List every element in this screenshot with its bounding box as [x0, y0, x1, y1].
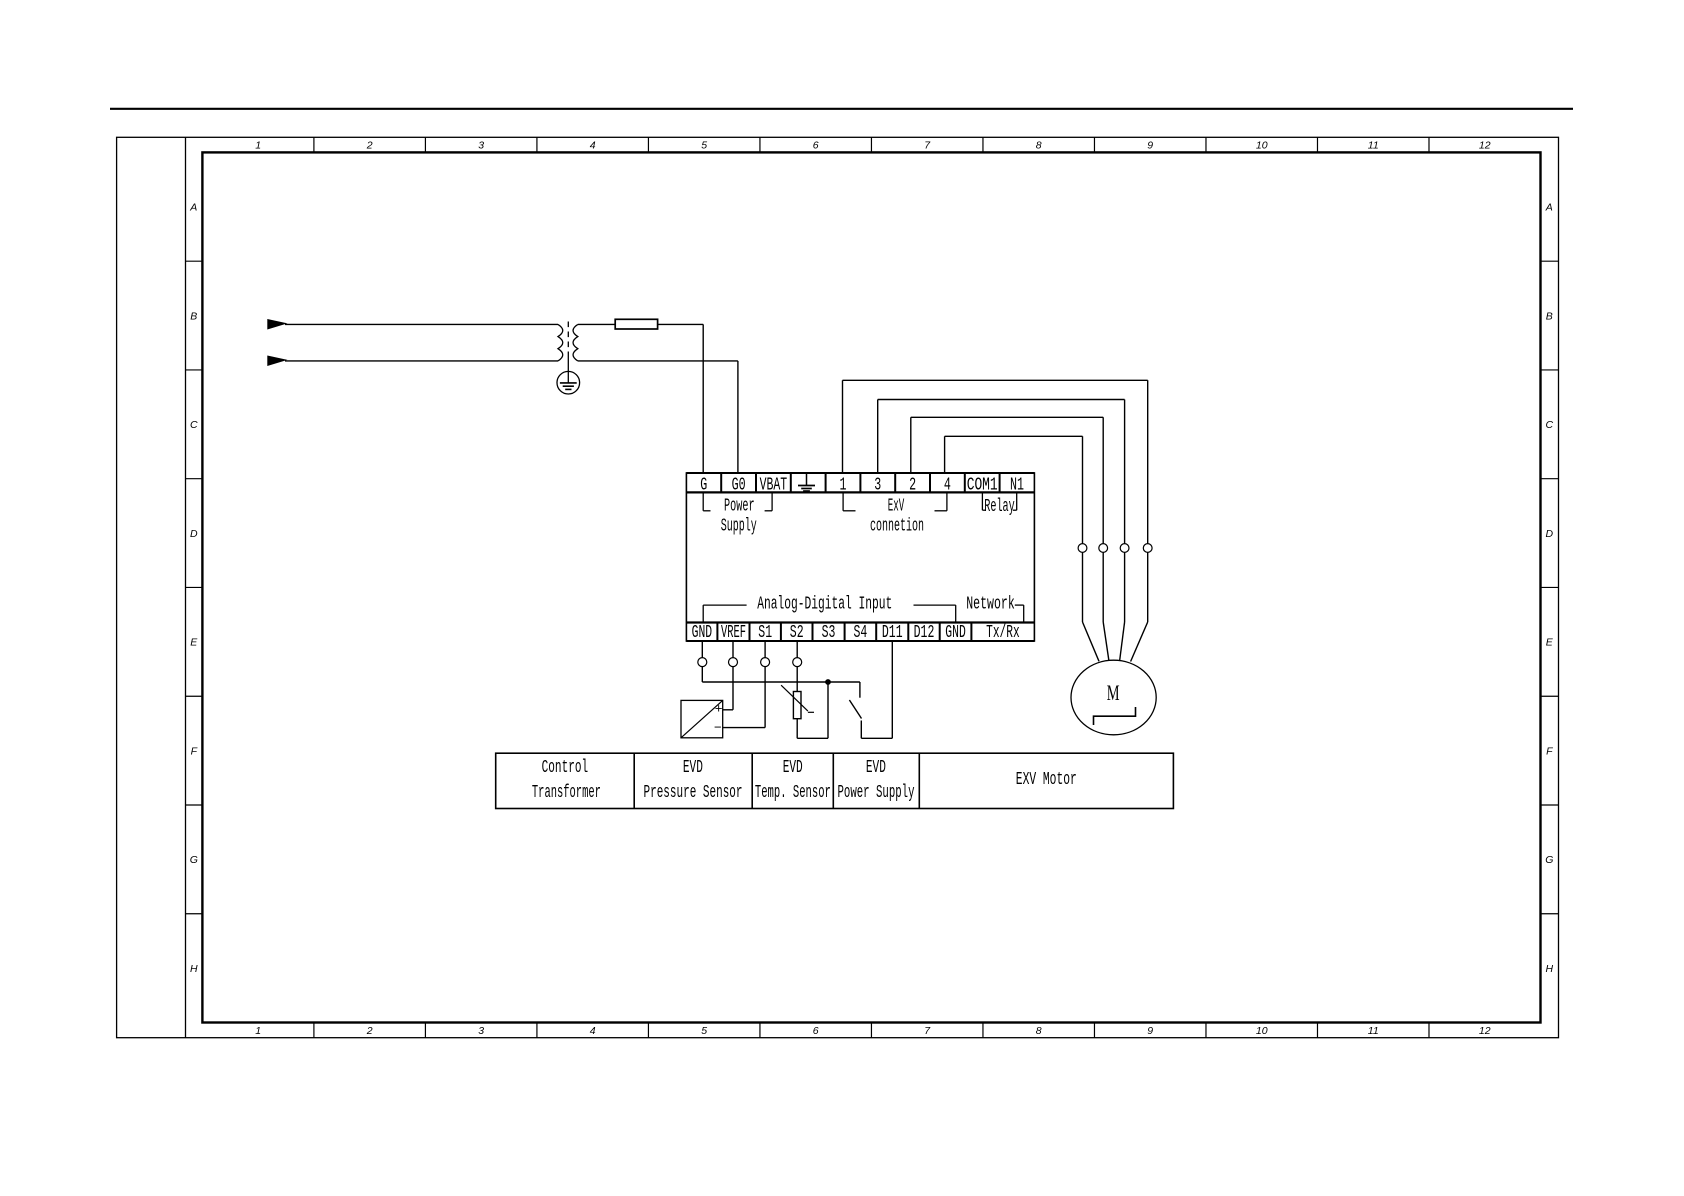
svg-text:D: D — [1546, 528, 1554, 540]
svg-text:Temp. Sensor: Temp. Sensor — [755, 783, 831, 803]
svg-text:B: B — [190, 310, 197, 322]
svg-text:E: E — [1546, 637, 1554, 649]
svg-text:Tx/Rx: Tx/Rx — [986, 623, 1020, 643]
svg-text:Power: Power — [724, 496, 755, 516]
svg-text:3: 3 — [478, 1025, 484, 1037]
svg-text:5: 5 — [701, 1025, 707, 1037]
svg-text:GND: GND — [945, 623, 966, 643]
svg-text:Control: Control — [542, 758, 589, 778]
svg-text:C: C — [1546, 419, 1554, 431]
svg-text:H: H — [190, 963, 198, 975]
svg-text:2: 2 — [909, 475, 916, 495]
svg-text:B: B — [1546, 310, 1553, 322]
svg-text:4: 4 — [590, 1025, 596, 1037]
svg-text:1: 1 — [255, 140, 261, 152]
svg-text:E: E — [190, 637, 198, 649]
svg-text:S4: S4 — [854, 623, 868, 643]
svg-text:2: 2 — [366, 1025, 373, 1037]
svg-text:Relay: Relay — [984, 497, 1015, 517]
svg-text:N1: N1 — [1010, 475, 1024, 495]
svg-text:2: 2 — [366, 140, 373, 152]
svg-text:1: 1 — [255, 1025, 261, 1037]
svg-text:−: − — [714, 721, 722, 736]
svg-text:G0: G0 — [732, 475, 746, 495]
svg-text:9: 9 — [1147, 1025, 1153, 1037]
svg-text:6: 6 — [813, 1025, 819, 1037]
svg-text:+: + — [715, 701, 723, 716]
svg-text:10: 10 — [1256, 140, 1268, 152]
svg-text:S3: S3 — [822, 623, 836, 643]
svg-text:COM1: COM1 — [967, 475, 998, 495]
svg-text:EXV Motor: EXV Motor — [1016, 770, 1077, 790]
svg-text:S1: S1 — [758, 623, 772, 643]
svg-text:Supply: Supply — [721, 516, 757, 536]
svg-text:M: M — [1107, 680, 1120, 705]
svg-text:D: D — [190, 528, 198, 540]
svg-text:Network: Network — [966, 595, 1015, 615]
svg-text:6: 6 — [813, 140, 819, 152]
svg-text:3: 3 — [478, 140, 484, 152]
svg-text:5: 5 — [701, 140, 707, 152]
svg-text:ExV: ExV — [888, 496, 905, 516]
svg-text:3: 3 — [874, 475, 881, 495]
svg-text:D12: D12 — [914, 623, 935, 643]
svg-text:11: 11 — [1368, 140, 1379, 152]
svg-text:12: 12 — [1479, 1025, 1491, 1037]
svg-text:S2: S2 — [790, 623, 804, 643]
svg-text:EVD: EVD — [783, 758, 803, 778]
svg-text:EVD: EVD — [683, 758, 703, 778]
svg-text:G: G — [700, 475, 707, 495]
svg-text:EVD: EVD — [866, 758, 886, 778]
svg-text:11: 11 — [1368, 1025, 1379, 1037]
svg-text:9: 9 — [1147, 140, 1153, 152]
svg-text:4: 4 — [944, 475, 951, 495]
svg-text:VBAT: VBAT — [760, 475, 788, 495]
svg-text:G: G — [190, 854, 198, 866]
svg-text:Analog-Digital Input: Analog-Digital Input — [757, 595, 892, 615]
svg-text:8: 8 — [1036, 1025, 1042, 1037]
svg-text:A: A — [1545, 202, 1553, 214]
svg-text:Pressure Sensor: Pressure Sensor — [644, 783, 743, 803]
svg-text:A: A — [189, 202, 197, 214]
svg-text:G: G — [1545, 854, 1553, 866]
svg-text:VREF: VREF — [721, 623, 746, 643]
svg-text:4: 4 — [590, 140, 596, 152]
svg-text:1: 1 — [840, 475, 847, 495]
svg-text:GND: GND — [692, 623, 713, 643]
svg-text:D11: D11 — [882, 623, 903, 643]
svg-text:Transformer: Transformer — [532, 783, 601, 803]
svg-text:F: F — [1546, 745, 1553, 757]
svg-text:12: 12 — [1479, 140, 1491, 152]
svg-text:Power Supply: Power Supply — [838, 783, 915, 803]
svg-text:C: C — [190, 419, 198, 431]
svg-text:connetion: connetion — [870, 516, 924, 536]
svg-text:8: 8 — [1036, 140, 1042, 152]
svg-text:F: F — [191, 745, 198, 757]
svg-text:H: H — [1546, 963, 1554, 975]
svg-text:10: 10 — [1256, 1025, 1268, 1037]
